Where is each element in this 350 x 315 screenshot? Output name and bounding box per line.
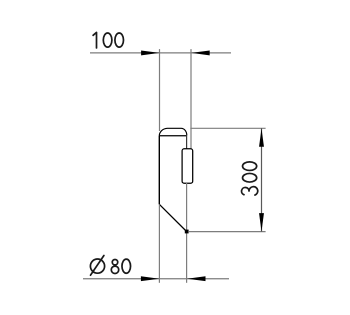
part left silhouette edge — [158, 136, 160, 205]
extension line left of dia80 dimension — [158, 205, 160, 283]
dimension text dia80 — [90, 256, 130, 276]
arrow right of 100 dimension (points left) — [191, 50, 210, 55]
arrow left of 100 dimension (points right) — [141, 50, 160, 55]
part right edge above slot — [186, 135, 188, 149]
arrow top of 300 dimension (points up) — [259, 128, 264, 147]
digit 8 — [112, 259, 117, 264]
extension line top of 300 dimension — [190, 127, 265, 129]
extension line right of dia80 dimension — [186, 183, 188, 283]
arrow bottom of 300 dimension (points down) — [259, 213, 264, 232]
dimension text 100 — [93, 32, 123, 48]
extension line left of 100 dimension — [159, 49, 161, 131]
vertex point marker (filled square) — [185, 230, 189, 234]
slot rounded rectangle — [182, 149, 193, 183]
part chamfer diagonal edge — [159, 204, 186, 231]
digit 0 — [122, 259, 131, 273]
diameter symbol — [90, 259, 104, 273]
arrow right of dia80 dimension (points left) — [187, 276, 206, 281]
arrow left of dia80 dimension (points right) — [141, 276, 160, 281]
dimension line 100 (horizontal, top) — [90, 52, 231, 54]
extension line right of 100 dimension — [190, 49, 192, 149]
part top rounded cap — [159, 128, 187, 136]
part cap tangent chord line — [159, 135, 187, 137]
dimension line 300 (vertical, right) — [261, 128, 263, 231]
extension line bottom of 300 dimension — [189, 231, 266, 233]
dimension line dia80 (horizontal, bottom) — [83, 278, 229, 280]
dimension text 300 (rotated 90 CCW) — [242, 162, 258, 195]
